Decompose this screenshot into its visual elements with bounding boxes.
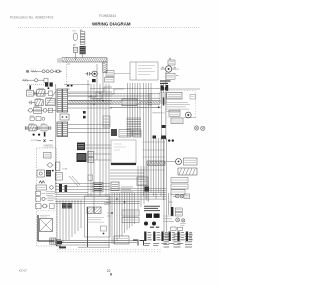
right margin bar: [163, 98, 165, 106]
ice maker bold pins: [161, 85, 164, 90]
control end lamp: [50, 186, 54, 190]
net stub marks: [67, 64, 70, 89]
heater box (hatched): [178, 168, 197, 175]
condenser fan capacitor: [168, 60, 175, 65]
dense note row b: [160, 82, 168, 84]
door lamp L5: [176, 218, 180, 222]
mold heater box: [169, 110, 180, 116]
staircase wire a: [88, 87, 112, 97]
inner partition dashes: [38, 210, 57, 212]
defrost thermostat box (hatched): [35, 100, 43, 106]
row 5 hatched box: [29, 125, 36, 131]
bottom long rows: [55, 243, 110, 248]
lower link rows: [110, 170, 144, 179]
connector P10: [114, 236, 129, 244]
label box row 1: [171, 178, 188, 183]
signal box caption: [40, 216, 50, 218]
diagonal feed wire: [46, 91, 56, 106]
defrost relay RL1 (striped): [77, 143, 85, 151]
solid pin bar a: [59, 184, 62, 192]
label box row 2: [171, 184, 188, 189]
row 5 wire: [25, 127, 53, 129]
dispenser lamp L3: [175, 194, 179, 198]
staircase wire b: [92, 89, 124, 99]
svg-text:COM: COM: [62, 169, 67, 171]
svg-text:CONTROL: CONTROL: [44, 145, 55, 147]
mini box P: [88, 175, 93, 181]
splice dot: [52, 170, 54, 172]
main control board U1: [111, 140, 136, 164]
relay-to-board links: [85, 145, 111, 162]
label box row 3: [171, 190, 185, 195]
defrost control box: [36, 185, 47, 190]
svg-text:22: 22: [107, 269, 111, 273]
bundle wrap ticks: [148, 94, 152, 105]
freezer lamp L2: [201, 126, 205, 130]
dense note row a: [160, 80, 171, 82]
bottom vertical drops: [57, 200, 81, 246]
board silkscreen marks: [114, 144, 126, 150]
right margin bold square b: [165, 87, 168, 90]
compressor terminal enclosure: [130, 62, 158, 80]
inverter bold feed: [87, 207, 89, 247]
switch box S2: [55, 173, 62, 181]
rail bottom mark: [59, 246, 66, 248]
connector P7: [133, 130, 141, 137]
section tick marks: [38, 139, 53, 142]
legend column 5: [177, 232, 184, 244]
svg-text:11: 11: [177, 69, 179, 71]
harness wrap band: [147, 161, 165, 165]
upper bus wire: [68, 89, 160, 99]
mini boxes: [171, 227, 177, 230]
interlock switch pair: [45, 82, 53, 89]
connector P6: [119, 130, 131, 138]
row 5 capacitor b: [38, 126, 39, 130]
start relay RL2 (striped): [77, 153, 87, 162]
right harness drop wire: [166, 58, 170, 141]
overload protector (solid block): [92, 79, 96, 82]
inverter note text: [104, 203, 111, 205]
legend row C: [36, 204, 55, 209]
svg-text:THERMISTOR: THERMISTOR: [152, 113, 165, 115]
splice feed wire: [64, 84, 90, 86]
wires from connector J3: [68, 92, 112, 108]
left rail bracket: [57, 240, 62, 247]
svg-text:4 ROW: 4 ROW: [31, 140, 38, 142]
bus junction dots: [90, 95, 91, 96]
ice maker module box: [167, 93, 183, 100]
hatched block pair: [62, 203, 72, 208]
inverter board box: [85, 196, 111, 237]
ice maker text rows: [166, 103, 196, 118]
label box side mark: [176, 75, 178, 77]
mid link rows: [110, 189, 166, 193]
row 3 end box: [48, 108, 52, 112]
condenser fan label box: [166, 73, 175, 79]
ice maker side box: [190, 95, 196, 100]
solid splice circles: [144, 222, 148, 226]
solid connector pair: [146, 214, 152, 218]
diagonal jumper: [69, 176, 80, 186]
start device lower box: [105, 78, 115, 82]
door harness vertical bundle: [144, 83, 164, 202]
footer dotted line lower: [57, 251, 162, 253]
right margin mark c: [162, 125, 166, 128]
mid label text rows: [121, 187, 133, 192]
board edge connector (solid): [111, 163, 136, 165]
bottom grid label marks: [106, 197, 111, 216]
right column bends: [169, 193, 177, 215]
ice maker feed wire: [160, 89, 200, 140]
lamp note text: [180, 224, 186, 226]
bold tick: [29, 85, 31, 89]
bottom bus rows: [55, 195, 166, 204]
legend column 6: [186, 232, 193, 242]
exit wire: [54, 240, 58, 242]
column A connector: [73, 47, 77, 52]
auger label box: [184, 158, 198, 165]
freezer lamp L1: [194, 126, 198, 130]
column B striped connector: [80, 46, 86, 54]
right rail hook b: [140, 241, 144, 246]
aux box K2: [88, 152, 94, 157]
dashed shelf line: [27, 84, 44, 86]
row end bar: [44, 132, 46, 137]
terminal strip box: [122, 210, 139, 216]
lamp label box: [184, 194, 190, 199]
solid pin bar b: [65, 185, 68, 192]
damper box with dial: [37, 170, 45, 177]
ice maker motor M4: [185, 112, 191, 118]
row 1 wire: [34, 92, 49, 94]
main harness band (hatched): [68, 101, 160, 105]
auger motor M5: [176, 159, 182, 165]
row 3 right connector: [43, 108, 47, 112]
legend row A: [36, 191, 56, 195]
legend column 3: [161, 232, 168, 244]
legend row B: [36, 197, 56, 201]
footer dotted line upper: [57, 249, 162, 251]
row 5 capacitor a: [26, 126, 27, 130]
junction block a: [83, 111, 86, 114]
splice dots above connector: [67, 85, 69, 87]
aux box K3: [88, 158, 94, 163]
wire harness band (horizontal): [62, 58, 107, 62]
run capacitor C1: [86, 72, 93, 76]
relay K1 small box: [60, 114, 69, 120]
mid mark e: [153, 136, 157, 139]
connector J4 (dual row): [57, 122, 68, 137]
connector P8: [111, 182, 119, 191]
wire with inline connectors: [31, 70, 63, 73]
second chain row: [22, 78, 48, 82]
thermistor box: [34, 108, 42, 114]
rail left blob: [57, 241, 62, 244]
cabinet harness vertical bundle: [88, 64, 109, 247]
right riser wires: [164, 138, 167, 232]
ice maker dashed outline: [166, 91, 196, 118]
section caption: [44, 145, 55, 147]
inverter relay pair (hatched): [87, 207, 101, 214]
wire to terminal enclosure: [114, 73, 130, 75]
row 1 end box: [48, 91, 52, 95]
connector J3 (dual row): [57, 89, 68, 112]
dense connector block: [93, 183, 103, 193]
solid terminal bar: [171, 207, 174, 216]
mid dark block: [145, 187, 150, 192]
water valve box b: [175, 212, 182, 216]
right rail hook a: [133, 240, 138, 246]
bottom rail: [57, 241, 137, 243]
svg-text:KZ-07: KZ-07: [19, 269, 28, 273]
legend pre-row marks: [150, 226, 159, 228]
bottom grid vertical wires: [112, 193, 135, 244]
row 2 terminal marks: [29, 101, 35, 105]
svg-text:Publication No. A08827403: Publication No. A08827403: [10, 15, 53, 19]
auger feed wire: [167, 161, 176, 163]
legend column 1: [144, 232, 152, 246]
control lamp: [47, 163, 54, 167]
inline connector on band: [122, 99, 137, 106]
compressor motor M1: [92, 71, 97, 76]
svg-text:WIRING DIAGRAM: WIRING DIAGRAM: [92, 21, 131, 26]
plug connector (hatched): [50, 238, 56, 244]
row 3 left connector: [29, 108, 33, 112]
inter-board risers: [138, 166, 147, 210]
heater zigzag: [39, 181, 45, 183]
right margin mark d: [161, 136, 166, 139]
condenser fan motor M2: [161, 66, 177, 72]
wire harness band (vertical drop): [103, 62, 107, 73]
splice dot pair: [168, 139, 170, 141]
row 2 label box: [45, 99, 55, 106]
dotted separator rule: [18, 27, 200, 29]
svg-text:B: B: [26, 69, 29, 73]
row 4 small parts: [30, 117, 45, 121]
dense label text block: [144, 206, 160, 210]
dispenser lamp L4: [180, 195, 183, 198]
dashed riser: [65, 57, 67, 92]
harness end marks: [58, 58, 60, 63]
defrost heater box (hatched): [37, 90, 45, 96]
column B bead chain: [80, 32, 85, 45]
side ladder box: [103, 116, 110, 127]
connector P9: [137, 177, 148, 186]
door lamp L6: [182, 219, 185, 222]
row 1 capacitor marks: [35, 92, 36, 96]
row 5 capacitor c: [49, 126, 50, 130]
right margin bold square a: [162, 87, 165, 90]
svg-text:OO: OO: [73, 30, 77, 32]
condenser box with X: [40, 219, 53, 232]
dashed enclosure (control housing): [37, 148, 57, 246]
water tube capsule: [74, 33, 78, 41]
junction block b: [83, 116, 86, 119]
column B drop wire: [81, 54, 83, 58]
shutoff arm box: [171, 118, 183, 124]
bus tick marks: [112, 93, 158, 99]
inverter text lines: [87, 218, 104, 223]
bottom grid junction dots: [116, 198, 118, 200]
terminal strip box 2: [122, 218, 139, 223]
start device box: [106, 71, 114, 77]
left riser wire: [55, 84, 57, 193]
door bundle upper stubs: [161, 83, 164, 93]
wires from connector J4: [68, 124, 110, 132]
legend column 4: [169, 232, 176, 244]
water valve box a: [175, 208, 182, 212]
inverter aux box: [101, 226, 107, 234]
lamp socket box: [27, 90, 34, 96]
signal arrow wire: [110, 106, 161, 108]
striped mini connector: [46, 170, 51, 177]
ground bus L-wire: [38, 215, 54, 241]
svg-text:FGHB2844: FGHB2844: [99, 14, 116, 18]
row 5 box b: [41, 125, 47, 131]
connector P5 (solid): [111, 129, 117, 136]
tick rows on bundle: [143, 142, 166, 170]
row 3 wire: [28, 109, 56, 111]
switch box S1: [55, 162, 60, 171]
ice maker pin ladder: [159, 93, 167, 103]
row micro labels: [27, 89, 51, 124]
lower link wires: [55, 184, 110, 193]
harness ladder bundle: [127, 83, 142, 137]
thermostat box: [44, 153, 52, 159]
pair note text: [163, 216, 174, 222]
legend column 2: [153, 232, 160, 246]
splice dots: [33, 134, 35, 136]
wire colour legend columns: [164, 234, 193, 247]
stray mark: [110, 273, 111, 276]
column A drop wire: [74, 53, 76, 61]
